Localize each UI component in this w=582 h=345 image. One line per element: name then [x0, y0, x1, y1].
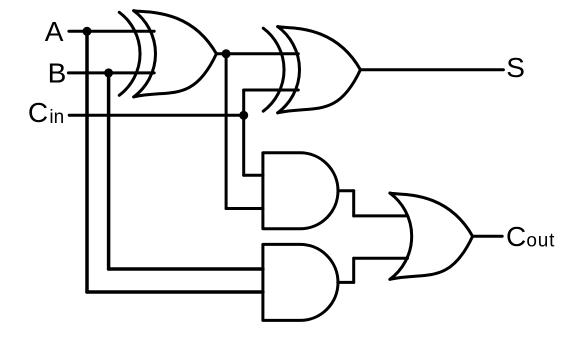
- wire to OR lower input: [354, 257, 408, 260]
- xor gate U2 (sum S): [263, 27, 360, 113]
- wire AND2 jog vertical: [352, 258, 355, 282]
- wire OR output to Cout: [473, 235, 503, 238]
- wire AND2 output stub: [338, 281, 354, 284]
- wire XOR1 output vertical drop: [225, 54, 228, 209]
- junction dot node A: [83, 27, 92, 36]
- svg-text:out: out: [526, 230, 555, 251]
- and gate U4 (A and B): [263, 244, 338, 320]
- wire XOR2 output to S: [360, 68, 503, 71]
- wire AND1 output stub: [338, 189, 354, 192]
- wire AND1 jog vertical: [352, 191, 355, 216]
- svg-text:S: S: [506, 52, 525, 83]
- svg-text:C: C: [28, 97, 48, 128]
- junction dot node Cin: [239, 111, 248, 120]
- wire XOR1 output to XOR2 input: [216, 52, 298, 55]
- wire Cin to AND1 upper input: [244, 174, 263, 177]
- wire to AND1 lower input: [226, 207, 263, 210]
- wire B to AND2 upper input: [109, 267, 263, 271]
- junction dot node A xor B: [222, 49, 231, 58]
- wire B horizontal: [68, 71, 154, 74]
- svg-text:B: B: [48, 57, 67, 88]
- wire Cin vertical riser: [242, 90, 245, 175]
- wire B vertical drop: [107, 73, 111, 269]
- wire A to AND2 lower input: [87, 290, 263, 294]
- wire Cin to XOR2 lower input: [244, 89, 299, 92]
- or gate U5 (Cout): [390, 193, 473, 279]
- svg-text:in: in: [49, 107, 64, 128]
- and gate U3 ((A xor B) and Cin): [263, 153, 338, 229]
- junction dot node B: [104, 68, 113, 77]
- wire A vertical drop: [85, 31, 89, 292]
- wire to OR upper input: [354, 214, 408, 217]
- svg-text:A: A: [45, 16, 64, 47]
- wire Cin horizontal: [69, 114, 244, 117]
- wire A horizontal: [69, 30, 154, 33]
- xor gate U1 (A xor B): [119, 11, 216, 97]
- svg-text:C: C: [506, 221, 526, 252]
